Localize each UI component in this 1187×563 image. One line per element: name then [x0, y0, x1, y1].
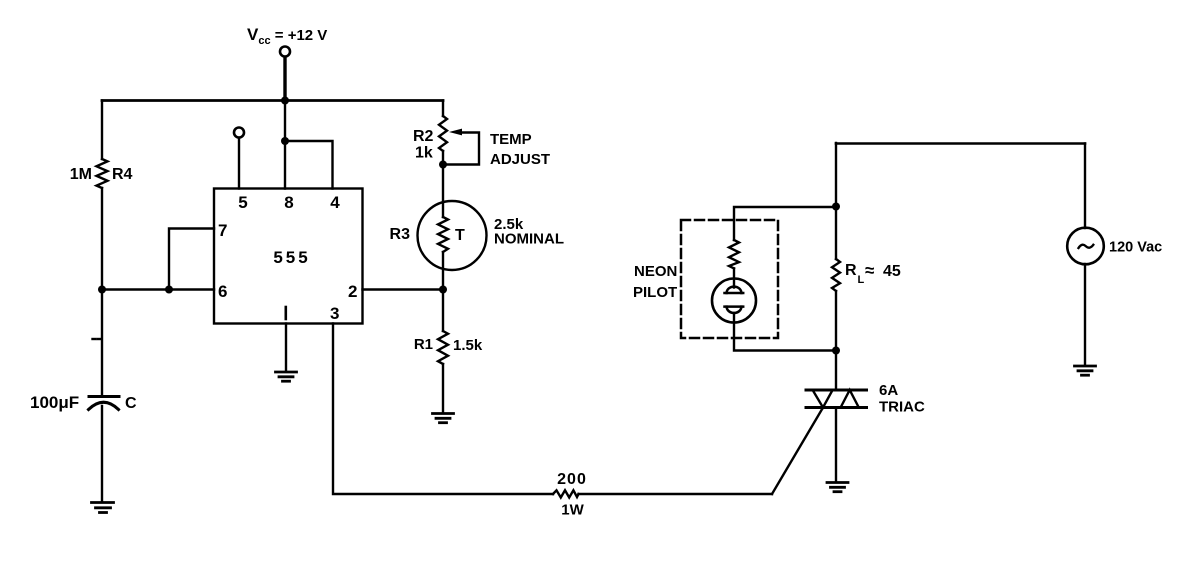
svg-text:R4: R4 [112, 166, 133, 183]
resistor RL [832, 259, 840, 291]
svg-text:Vcc = +12 V: Vcc = +12 V [247, 25, 327, 47]
svg-text:TRIAC: TRIAC [879, 399, 925, 416]
wire left rail to capacitor [101, 290, 103, 397]
wire top bus [102, 99, 443, 102]
svg-text:5: 5 [238, 193, 247, 212]
wire AC source to ground [1084, 264, 1086, 365]
AC source 120 Vac [1067, 228, 1104, 265]
wire AC top bus [836, 142, 1085, 145]
svg-text:555: 555 [273, 248, 310, 267]
wire left rail mid [101, 188, 103, 290]
svg-text:200: 200 [557, 471, 587, 488]
wiper arrow [449, 129, 462, 136]
svg-text:T: T [455, 227, 465, 244]
wire pin 2 [363, 288, 444, 290]
svg-text:100μF: 100μF [30, 393, 79, 412]
wire triac to ground [835, 408, 837, 483]
wire AC source lead [1084, 144, 1086, 229]
svg-text:≈: ≈ [865, 261, 874, 280]
svg-text:1M: 1M [70, 166, 92, 183]
wire pin 1 lead [285, 324, 287, 372]
wire R2 to R3 [442, 151, 444, 217]
wire 200 to gate [579, 493, 773, 495]
node junction load/neon bottom [832, 347, 840, 355]
svg-text:1.5k: 1.5k [453, 337, 483, 354]
wire pin 8 lead [284, 101, 286, 189]
svg-text:6: 6 [218, 282, 227, 301]
svg-text:7: 7 [218, 221, 227, 240]
wire node to triac [835, 351, 837, 391]
svg-text:ADJUST: ADJUST [490, 151, 550, 168]
svg-text:4: 4 [330, 193, 340, 212]
wire pin 6 [102, 288, 214, 290]
IC U1 555 timer [214, 189, 363, 324]
wire left rail upper [101, 101, 103, 160]
node junction left rail / pin6 [98, 286, 106, 294]
resistor R2 potentiometer [439, 116, 447, 151]
node junction pin7/pin6 [165, 286, 173, 294]
ground (capacitor) [92, 503, 114, 513]
svg-text:C: C [125, 395, 137, 412]
resistor R4 [97, 159, 108, 188]
svg-text:L: L [858, 274, 865, 286]
wire R1 top lead [442, 290, 444, 331]
ground (triac) [827, 483, 848, 492]
svg-text:R: R [845, 262, 857, 279]
svg-text:NOMINAL: NOMINAL [494, 231, 564, 248]
svg-text:3: 3 [330, 304, 339, 323]
wire pin 7 [169, 229, 214, 290]
resistor 200 1W [553, 490, 579, 497]
wire pin 3 lead [333, 324, 553, 495]
wire pin 5 lead [238, 138, 240, 189]
wire ballast to lamp [733, 268, 735, 287]
capacitor C [89, 395, 119, 398]
node junction pin8/pin4 [281, 137, 289, 145]
wire R1 to ground [442, 364, 444, 413]
wire load branch upper [835, 143, 837, 207]
neon lamp [712, 279, 756, 323]
dashed enclosure [681, 220, 778, 338]
Vcc terminal [280, 47, 290, 57]
wire to RL [835, 207, 837, 260]
ground (R1) [433, 414, 454, 423]
svg-text:8: 8 [284, 193, 293, 212]
svg-text:NEON: NEON [634, 263, 677, 280]
resistor neon ballast [729, 240, 739, 268]
svg-text:PILOT: PILOT [633, 284, 677, 301]
node junction load/neon top [832, 203, 840, 211]
wire lamp to bottom node [734, 313, 836, 351]
svg-text:2: 2 [348, 282, 357, 301]
wire Vcc stub [283, 58, 286, 101]
wire neon top branch [734, 207, 836, 240]
ground (AC source) [1075, 366, 1096, 375]
node junction R2 wiper [439, 161, 447, 169]
wire capacitor to ground [101, 406, 103, 502]
wire R3 to pin2 node [442, 252, 444, 290]
pin 5 terminal [234, 128, 244, 138]
svg-text:R2: R2 [413, 128, 434, 145]
wire triac gate diagonal [772, 408, 823, 495]
svg-text:6A: 6A [879, 382, 898, 399]
svg-text:1k: 1k [415, 145, 433, 162]
wire RL to bottom node [835, 291, 837, 351]
svg-text:45: 45 [883, 263, 901, 280]
triac Q1 [806, 389, 867, 392]
svg-text:R1: R1 [414, 336, 433, 353]
svg-text:R3: R3 [390, 226, 411, 243]
wire pin 4 branch [285, 141, 333, 189]
svg-text:120 Vac: 120 Vac [1109, 240, 1162, 256]
svg-text:TEMP: TEMP [490, 131, 532, 148]
thermistor R3 [418, 201, 487, 270]
svg-text:1W: 1W [561, 502, 584, 519]
ground (pin 1) [276, 372, 297, 381]
node junction pin2/R3/R1 [439, 286, 447, 294]
wire R2 top lead [442, 101, 444, 117]
resistor R1 [438, 331, 448, 364]
node junction Vcc/bus [281, 97, 289, 105]
